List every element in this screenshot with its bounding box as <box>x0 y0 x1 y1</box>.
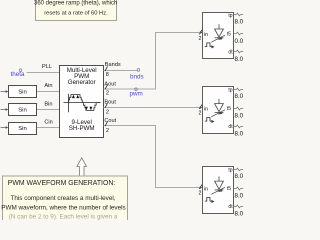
svg-text:Sin: Sin <box>18 89 27 95</box>
svg-text:in: in <box>204 106 208 112</box>
bus slash <box>199 185 202 189</box>
svg-text:theta: theta <box>11 71 26 78</box>
svg-text:in: in <box>204 186 208 192</box>
svg-text:Bout: Bout <box>104 99 116 105</box>
svg-text:8.0: 8.0 <box>235 93 244 100</box>
svg-text:2: 2 <box>106 128 109 134</box>
svg-text:pwm: pwm <box>130 91 143 98</box>
gate pulse glyph <box>205 198 213 202</box>
wire Cout to leg3 <box>104 126 203 188</box>
wire Aout to leg1 <box>104 33 203 90</box>
note box bottom <box>1 176 127 231</box>
svg-text:dt: dt <box>228 124 233 130</box>
gate pulse glyph <box>205 118 213 122</box>
svg-text:t5: t5 <box>227 186 231 192</box>
node bnds <box>130 69 144 81</box>
svg-text:This component creates a multi: This component creates a multi-level, <box>10 195 115 202</box>
svg-text:8.0: 8.0 <box>235 192 244 199</box>
svg-text:2: 2 <box>199 110 202 116</box>
svg-text:8.0: 8.0 <box>235 19 244 26</box>
source S3 (Sin) <box>1 123 37 135</box>
pin stubs <box>234 88 244 128</box>
pin stubs <box>234 168 244 208</box>
svg-text:8.0: 8.0 <box>235 56 244 63</box>
waveform arrows <box>72 95 93 111</box>
svg-text:in: in <box>204 32 208 38</box>
pin stubs <box>234 13 244 53</box>
gate arrow head <box>218 111 223 114</box>
svg-text:8.0: 8.0 <box>235 173 244 180</box>
thyristor leg block C <box>199 167 244 218</box>
note box top <box>34 0 117 21</box>
node theta <box>11 69 26 78</box>
svg-text:PWM WAVEFORM GENERATION:: PWM WAVEFORM GENERATION: <box>8 180 116 187</box>
svg-text:PLL: PLL <box>42 64 52 70</box>
svg-text:bnds: bnds <box>130 74 144 81</box>
bus slash <box>199 30 202 34</box>
pulse arrow <box>212 200 215 203</box>
thyristor leg block B <box>199 87 244 138</box>
svg-text:Ain: Ain <box>44 83 52 89</box>
svg-text:Cout: Cout <box>104 118 116 124</box>
svg-text:t5: t5 <box>227 106 231 112</box>
svg-text:Generator: Generator <box>68 79 96 86</box>
svg-text:t5: t5 <box>227 32 231 38</box>
source S1 (Sin) <box>1 86 37 98</box>
svg-text:8.0: 8.0 <box>235 131 244 138</box>
svg-text:2: 2 <box>106 91 109 97</box>
svg-text:2: 2 <box>199 36 202 42</box>
gate arrow head <box>218 189 223 192</box>
pulse arrow <box>212 120 215 123</box>
waveform icon <box>64 94 101 113</box>
svg-text:8: 8 <box>106 72 109 78</box>
svg-text:resets at a rate of 60 Hz.: resets at a rate of 60 Hz. <box>44 11 108 17</box>
svg-text:0.0: 0.0 <box>235 38 244 45</box>
svg-text:tp: tp <box>228 167 232 173</box>
wire Bout to leg2 <box>104 107 203 109</box>
wire Bands stub <box>104 70 138 72</box>
svg-text:dt: dt <box>228 49 233 55</box>
wire arrowhead <box>200 186 203 189</box>
source S2 (Sin) <box>1 104 37 116</box>
svg-text:Sin: Sin <box>18 126 27 132</box>
svg-text:SH-PWM: SH-PWM <box>69 125 95 132</box>
bus slashes at generator outputs <box>105 66 108 126</box>
wire Cin <box>37 127 61 129</box>
PWM generator block U1 <box>60 66 104 138</box>
thyristor Q3 <box>211 176 225 194</box>
svg-text:8.0: 8.0 <box>235 112 244 119</box>
wire theta to PLL <box>27 72 60 74</box>
annotation arrow <box>77 158 87 177</box>
wire Ain <box>37 91 61 93</box>
svg-text:(N can be 2 to 9). Each level: (N can be 2 to 9). Each level is given a <box>9 214 118 220</box>
svg-text:tp: tp <box>228 87 232 93</box>
svg-text:Cin: Cin <box>44 120 52 126</box>
gate arrow head <box>218 37 223 40</box>
node pwm <box>130 88 143 98</box>
svg-text:Bin: Bin <box>44 101 52 107</box>
thyristor Q2 <box>211 99 225 117</box>
svg-text:tp: tp <box>228 13 232 19</box>
wire arrowhead <box>200 31 203 34</box>
wire arrowhead <box>200 106 203 109</box>
svg-text:8.0: 8.0 <box>235 211 244 218</box>
gate pulse glyph <box>205 43 213 47</box>
pulse arrow <box>212 45 215 48</box>
svg-text:2: 2 <box>106 110 109 116</box>
svg-text:Sin: Sin <box>18 108 27 114</box>
wire Bin <box>37 109 61 111</box>
thyristor leg block A <box>199 13 244 64</box>
svg-text:PWM waveform, where the number: PWM waveform, where the number of levels <box>1 204 125 211</box>
thyristor Q1 <box>211 24 225 42</box>
svg-text:2: 2 <box>199 190 202 196</box>
svg-text:360 degree ramp (theta), which: 360 degree ramp (theta), which <box>34 1 117 7</box>
bus slash <box>199 105 202 109</box>
svg-text:dt: dt <box>228 204 233 210</box>
